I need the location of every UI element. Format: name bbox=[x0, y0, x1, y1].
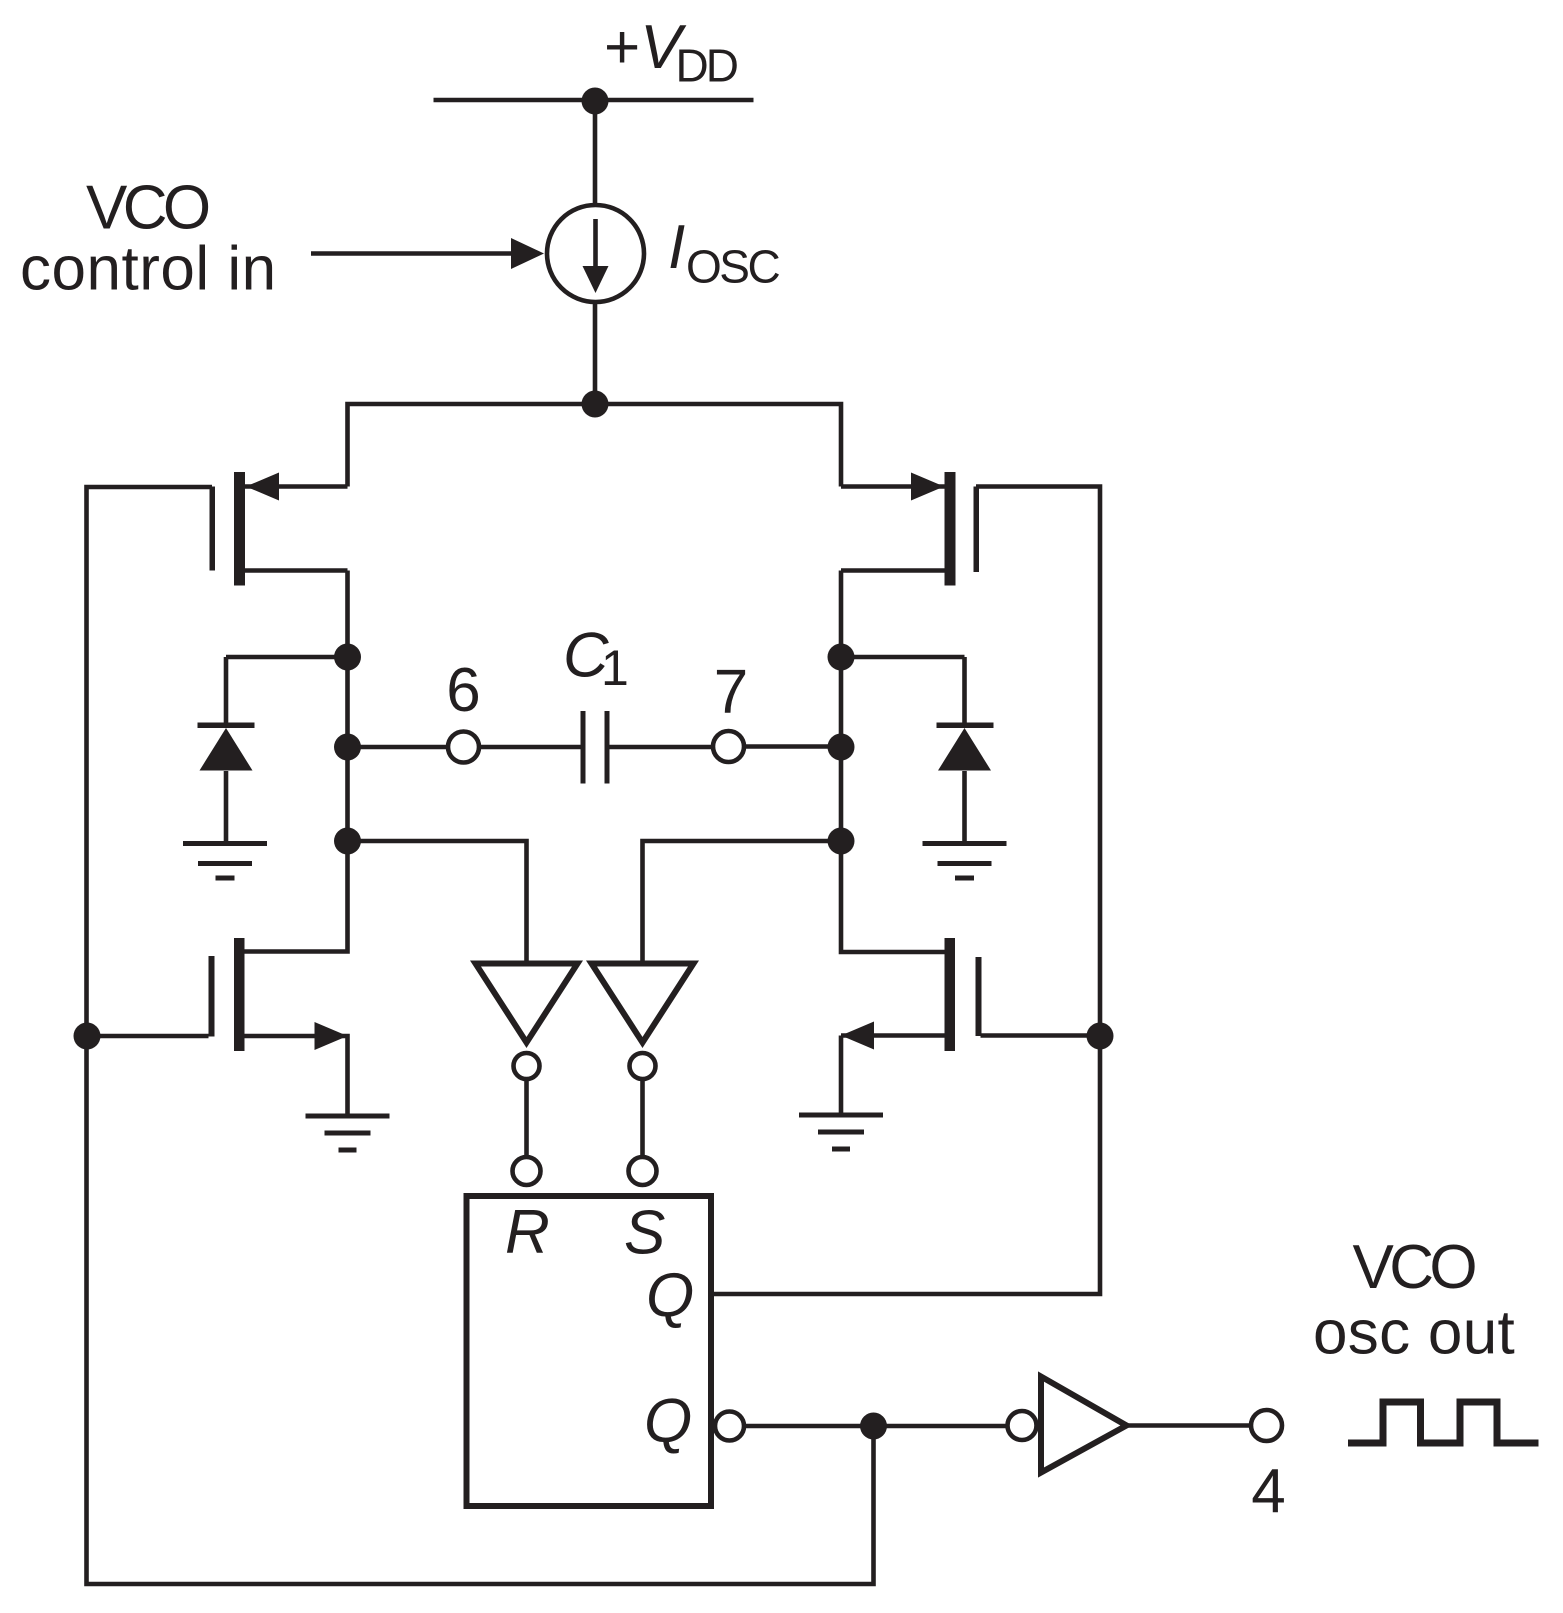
svg-text:OSC: OSC bbox=[686, 241, 779, 293]
svg-text:control in: control in bbox=[20, 235, 277, 304]
svg-text:7: 7 bbox=[714, 658, 748, 727]
svg-text:Q: Q bbox=[644, 1387, 692, 1456]
svg-text:1: 1 bbox=[601, 640, 629, 696]
svg-text:I: I bbox=[668, 213, 685, 282]
svg-text:S: S bbox=[624, 1199, 665, 1268]
svg-text:DD: DD bbox=[676, 40, 738, 92]
svg-text:osc out: osc out bbox=[1313, 1299, 1515, 1368]
svg-text:VCO: VCO bbox=[1353, 1233, 1476, 1302]
svg-text:Q: Q bbox=[646, 1261, 694, 1330]
svg-text:R: R bbox=[505, 1198, 550, 1267]
svg-text:4: 4 bbox=[1251, 1457, 1285, 1526]
svg-text:6: 6 bbox=[446, 656, 480, 725]
svg-text:VCO: VCO bbox=[86, 174, 209, 243]
